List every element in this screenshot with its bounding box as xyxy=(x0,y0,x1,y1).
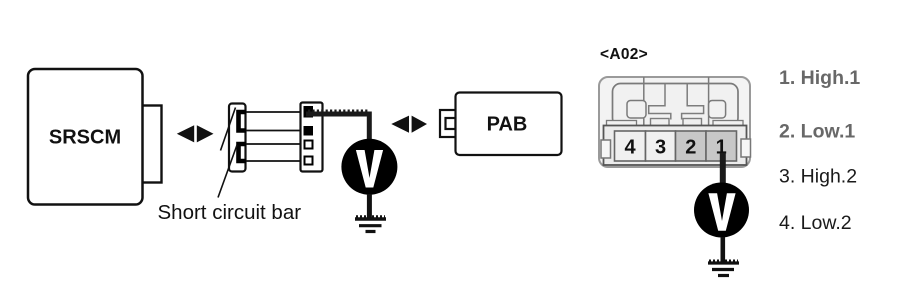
probe wire pin1 to voltmeter V2 xyxy=(720,153,726,185)
terminal cell 4 xyxy=(615,131,646,161)
pin 2 (filled) xyxy=(304,126,314,136)
pin list item 1 High.1 xyxy=(779,67,860,89)
connector A02 center key left xyxy=(649,84,671,120)
svg-text:PAB: PAB xyxy=(487,114,528,136)
pin list item 2 Low.1 xyxy=(779,121,855,143)
connector A02 latch right xyxy=(741,139,751,157)
pin 3 (open) xyxy=(305,141,313,149)
terminal cell 1 xyxy=(706,131,737,161)
connector A02 outer housing xyxy=(599,77,750,167)
Short circuit bar label xyxy=(158,201,302,224)
connector A02 left keyway xyxy=(627,101,646,119)
wire 4 xyxy=(244,160,304,162)
pin list item 3 High.2 xyxy=(779,166,857,188)
short circuit bar 2 xyxy=(239,144,247,161)
pointer slash upper xyxy=(221,108,236,151)
wire 2 xyxy=(244,130,304,132)
connector A02 center key right xyxy=(682,84,704,120)
bidirectional arrow 2 xyxy=(391,116,427,133)
PAB label xyxy=(487,114,528,136)
connector A02 right keyway xyxy=(709,101,726,119)
pin 4 (open) xyxy=(305,157,313,165)
connector A02 bottom step right xyxy=(713,121,743,127)
svg-text:3. High.2: 3. High.2 xyxy=(779,166,857,188)
connector A02 top divider right xyxy=(708,77,710,126)
svg-text:<A02>: <A02> xyxy=(600,46,648,63)
wire V1 to ground xyxy=(367,194,372,218)
connector A02 latch left xyxy=(601,140,611,158)
svg-text:1. High.1: 1. High.1 xyxy=(779,67,860,89)
wire 3 xyxy=(244,143,304,145)
connector housing (SRSCM side) xyxy=(229,104,246,172)
SRSCM connector tab xyxy=(142,106,162,183)
probe wire to voltmeter V1 xyxy=(306,111,369,142)
wire V2 to ground xyxy=(720,237,725,262)
PAB connector tab xyxy=(440,110,456,137)
voltmeter V1 xyxy=(341,139,397,195)
svg-text:4. Low.2: 4. Low.2 xyxy=(779,212,852,234)
svg-text:SRSCM: SRSCM xyxy=(49,127,121,149)
svg-text:2. Low.1: 2. Low.1 xyxy=(779,121,855,143)
ground 1 xyxy=(355,216,386,231)
pointer slash lower xyxy=(218,145,237,198)
voltmeter V2 xyxy=(694,183,749,238)
terminal cell 2 xyxy=(676,131,707,161)
svg-text:2: 2 xyxy=(685,137,696,159)
terminal cell 3 xyxy=(646,131,676,161)
connector A02 inner housing xyxy=(613,84,739,127)
SRSCM module box xyxy=(28,69,143,205)
connector housing (harness side) xyxy=(301,103,323,172)
connector A02 neck tab left xyxy=(651,119,670,132)
SRSCM label xyxy=(49,127,121,149)
connector A02 top divider left xyxy=(643,77,645,126)
short circuit bar 1 xyxy=(239,112,247,131)
connector A02 neck tab right xyxy=(683,119,702,132)
PAB module box xyxy=(456,93,562,156)
svg-text:4: 4 xyxy=(624,137,636,159)
connector A02 bottom step left xyxy=(607,121,637,127)
pin list item 4 Low.2 xyxy=(779,212,852,234)
pin 1 (filled) xyxy=(304,106,314,118)
bidirectional arrow 1 xyxy=(177,125,214,142)
svg-text:Short circuit bar: Short circuit bar xyxy=(158,201,302,224)
svg-text:3: 3 xyxy=(655,137,666,159)
A02 connector designator xyxy=(600,46,648,63)
wire 1 xyxy=(244,111,304,113)
connector A02 terminal band xyxy=(604,126,747,166)
ground 2 xyxy=(708,261,739,276)
